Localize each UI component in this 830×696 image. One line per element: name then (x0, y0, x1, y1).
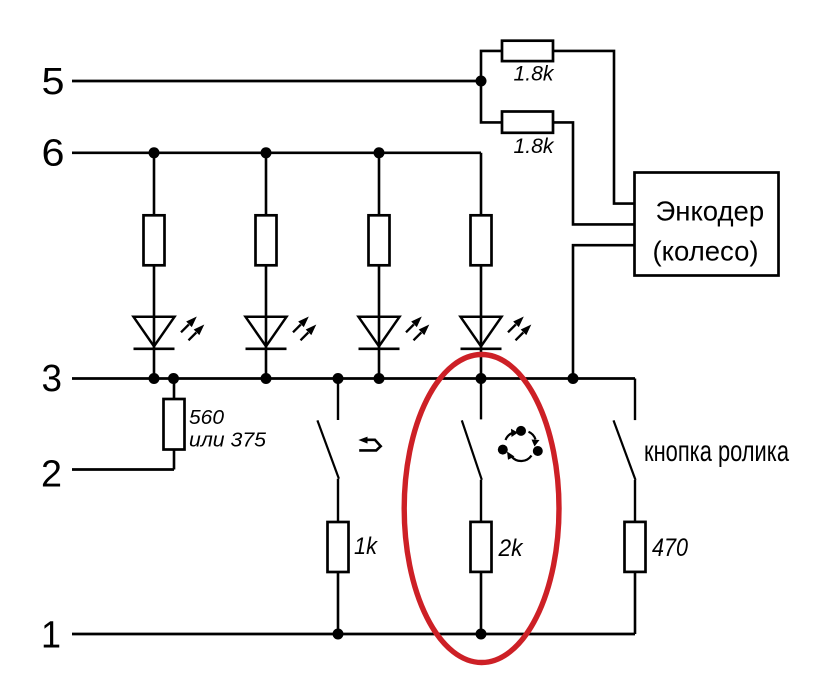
svg-text:2: 2 (41, 454, 62, 496)
svg-text:кнопка ролика: кнопка ролика (644, 435, 789, 468)
svg-text:560: 560 (189, 407, 224, 429)
svg-text:1: 1 (41, 615, 61, 657)
svg-text:или 375: или 375 (189, 430, 267, 452)
svg-text:6: 6 (42, 133, 65, 175)
svg-text:5: 5 (42, 61, 65, 103)
svg-text:Энкодер: Энкодер (656, 196, 765, 227)
svg-text:3: 3 (41, 358, 62, 400)
svg-text:(колесо): (колесо) (653, 235, 759, 266)
svg-text:2k: 2k (498, 535, 525, 562)
svg-text:470: 470 (652, 534, 688, 562)
svg-text:1.8k: 1.8k (514, 63, 556, 86)
svg-text:1k: 1k (354, 533, 379, 560)
svg-text:1.8k: 1.8k (514, 135, 556, 158)
